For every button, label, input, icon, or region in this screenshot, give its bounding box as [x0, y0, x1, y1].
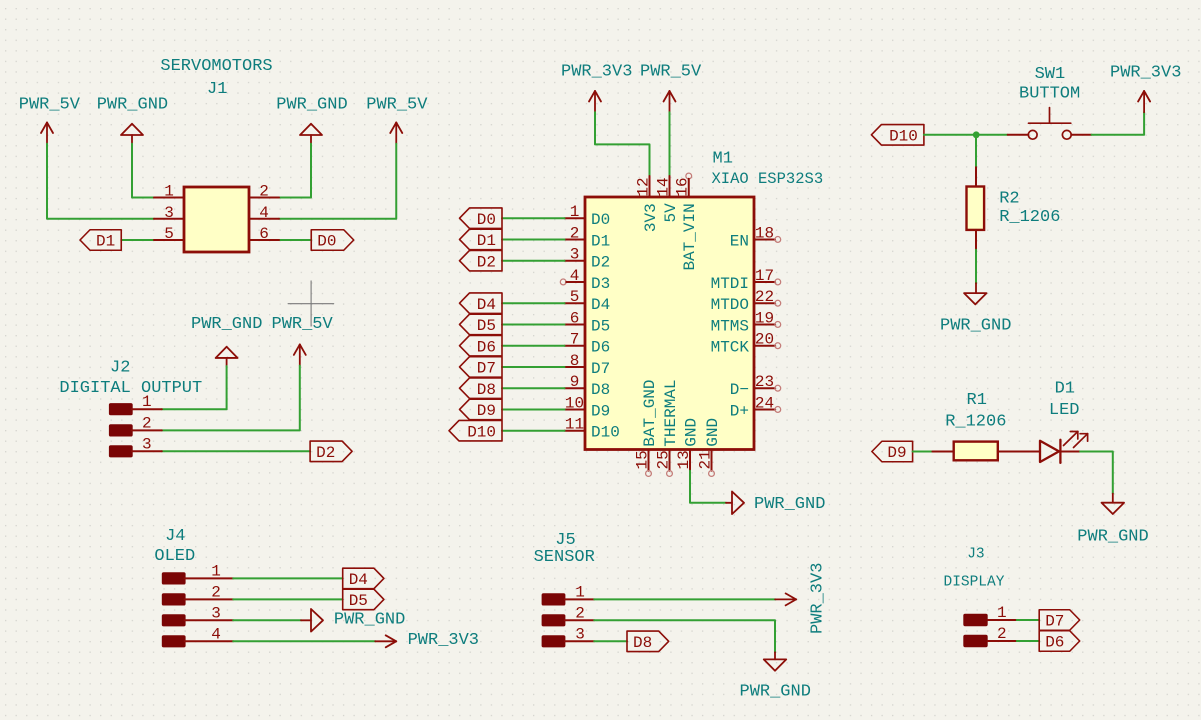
- svg-text:6: 6: [570, 309, 580, 327]
- svg-text:D6: D6: [477, 338, 496, 356]
- svg-text:SERVOMOTORS: SERVOMOTORS: [160, 57, 272, 76]
- svg-text:D9: D9: [477, 402, 496, 420]
- svg-text:BAT_GND: BAT_GND: [641, 379, 659, 446]
- svg-text:2: 2: [575, 604, 585, 622]
- svg-text:SENSOR: SENSOR: [534, 548, 595, 567]
- svg-text:11: 11: [565, 416, 584, 434]
- svg-text:1: 1: [142, 393, 152, 411]
- svg-text:PWR_5V: PWR_5V: [272, 315, 334, 334]
- svg-text:PWR_GND: PWR_GND: [740, 683, 811, 702]
- svg-text:D1: D1: [96, 233, 115, 251]
- svg-text:D−: D−: [730, 381, 749, 399]
- svg-text:D8: D8: [477, 381, 496, 399]
- svg-text:M1: M1: [713, 149, 733, 168]
- svg-text:XIAO ESP32S3: XIAO ESP32S3: [712, 170, 824, 188]
- svg-text:D2: D2: [316, 444, 335, 462]
- svg-text:5: 5: [570, 288, 580, 306]
- svg-text:GND: GND: [682, 418, 700, 447]
- svg-text:J3: J3: [967, 547, 984, 563]
- svg-text:D0: D0: [477, 211, 496, 229]
- svg-text:25: 25: [655, 450, 673, 469]
- svg-text:R_1206: R_1206: [999, 208, 1060, 227]
- svg-text:D1: D1: [591, 232, 610, 250]
- svg-text:D6: D6: [1045, 634, 1064, 652]
- svg-text:9: 9: [570, 373, 580, 391]
- svg-text:PWR_GND: PWR_GND: [191, 315, 262, 334]
- svg-text:3: 3: [142, 435, 152, 453]
- svg-text:21: 21: [697, 450, 715, 469]
- svg-text:D1: D1: [1055, 380, 1075, 399]
- svg-text:3: 3: [211, 604, 221, 622]
- svg-text:D2: D2: [591, 254, 610, 272]
- svg-text:4: 4: [211, 625, 221, 643]
- svg-text:5V: 5V: [662, 203, 680, 223]
- svg-text:D5: D5: [477, 317, 496, 335]
- svg-text:4: 4: [570, 267, 580, 285]
- svg-text:D8: D8: [633, 634, 652, 652]
- svg-text:DISPLAY: DISPLAY: [944, 575, 1005, 591]
- svg-text:LED: LED: [1049, 401, 1080, 420]
- svg-text:14: 14: [654, 177, 672, 196]
- svg-text:3: 3: [570, 246, 580, 264]
- svg-text:4: 4: [259, 204, 269, 222]
- svg-text:PWR_GND: PWR_GND: [754, 495, 825, 514]
- svg-text:D1: D1: [477, 232, 496, 250]
- svg-text:D+: D+: [730, 402, 749, 420]
- svg-text:18: 18: [755, 224, 774, 242]
- svg-text:D4: D4: [349, 571, 368, 589]
- svg-text:10: 10: [565, 394, 584, 412]
- svg-text:PWR_3V3: PWR_3V3: [1110, 63, 1181, 82]
- svg-text:D6: D6: [591, 339, 610, 357]
- svg-text:D5: D5: [591, 317, 610, 335]
- svg-text:D7: D7: [477, 360, 496, 378]
- svg-text:D9: D9: [591, 402, 610, 420]
- svg-text:SW1: SW1: [1035, 65, 1066, 84]
- svg-text:D4: D4: [591, 296, 610, 314]
- svg-text:PWR_GND: PWR_GND: [940, 317, 1011, 336]
- svg-text:BUTTOM: BUTTOM: [1019, 85, 1080, 104]
- svg-text:17: 17: [755, 267, 774, 285]
- svg-text:15: 15: [634, 450, 652, 469]
- svg-text:PWR_3V3: PWR_3V3: [809, 563, 828, 634]
- svg-text:7: 7: [570, 331, 580, 349]
- svg-text:2: 2: [997, 625, 1007, 643]
- svg-text:3: 3: [164, 204, 174, 222]
- svg-text:1: 1: [575, 583, 585, 601]
- svg-text:1: 1: [570, 203, 580, 221]
- svg-text:2: 2: [142, 414, 152, 432]
- svg-text:D9: D9: [887, 444, 906, 462]
- svg-text:2: 2: [570, 224, 580, 242]
- svg-text:R_1206: R_1206: [945, 412, 1006, 431]
- svg-text:PWR_3V3: PWR_3V3: [408, 631, 479, 650]
- svg-text:PWR_3V3: PWR_3V3: [561, 63, 632, 82]
- svg-text:6: 6: [259, 225, 269, 243]
- svg-text:23: 23: [755, 373, 774, 391]
- svg-text:PWR_GND: PWR_GND: [1077, 528, 1148, 547]
- svg-text:PWR_5V: PWR_5V: [640, 63, 702, 82]
- svg-text:3: 3: [575, 625, 585, 643]
- svg-text:2: 2: [211, 583, 221, 601]
- svg-text:J4: J4: [165, 527, 185, 546]
- svg-text:PWR_5V: PWR_5V: [366, 95, 428, 114]
- svg-text:12: 12: [634, 177, 652, 196]
- svg-text:D0: D0: [317, 233, 336, 251]
- svg-text:D10: D10: [591, 424, 620, 442]
- svg-text:EN: EN: [730, 232, 749, 250]
- svg-text:OLED: OLED: [154, 547, 195, 566]
- svg-text:D7: D7: [591, 360, 610, 378]
- svg-text:GND: GND: [704, 418, 722, 447]
- svg-text:19: 19: [755, 309, 774, 327]
- svg-text:D3: D3: [591, 275, 610, 293]
- svg-text:1: 1: [997, 604, 1007, 622]
- svg-text:MTDO: MTDO: [711, 296, 749, 314]
- svg-text:D7: D7: [1045, 613, 1064, 631]
- svg-text:MTDI: MTDI: [711, 275, 749, 293]
- svg-text:J2: J2: [110, 359, 130, 378]
- svg-text:D10: D10: [467, 423, 496, 441]
- svg-text:5: 5: [164, 225, 174, 243]
- svg-text:PWR_GND: PWR_GND: [334, 610, 405, 629]
- svg-text:PWR_GND: PWR_GND: [97, 95, 168, 114]
- svg-text:D2: D2: [477, 253, 496, 271]
- svg-text:PWR_5V: PWR_5V: [19, 95, 81, 114]
- svg-text:MTCK: MTCK: [711, 339, 750, 357]
- svg-text:THERMAL: THERMAL: [662, 379, 680, 446]
- svg-text:13: 13: [675, 450, 693, 469]
- svg-text:R2: R2: [999, 190, 1019, 209]
- svg-text:24: 24: [755, 394, 774, 412]
- svg-text:D8: D8: [591, 381, 610, 399]
- svg-text:D0: D0: [591, 211, 610, 229]
- svg-text:1: 1: [211, 562, 221, 580]
- svg-text:16: 16: [674, 177, 692, 196]
- svg-text:D10: D10: [889, 127, 918, 145]
- svg-text:BAT_VIN: BAT_VIN: [681, 203, 699, 270]
- svg-text:J1: J1: [207, 80, 227, 99]
- svg-text:PWR_GND: PWR_GND: [276, 95, 347, 114]
- svg-text:2: 2: [259, 183, 269, 201]
- svg-text:3V3: 3V3: [642, 203, 660, 232]
- svg-text:22: 22: [755, 288, 774, 306]
- svg-text:D4: D4: [477, 296, 496, 314]
- svg-text:R1: R1: [967, 391, 987, 410]
- svg-text:20: 20: [755, 331, 774, 349]
- svg-text:DIGITAL OUTPUT: DIGITAL OUTPUT: [59, 379, 202, 398]
- svg-text:D5: D5: [349, 592, 368, 610]
- svg-text:8: 8: [570, 352, 580, 370]
- svg-text:1: 1: [164, 183, 174, 201]
- svg-text:MTMS: MTMS: [711, 317, 749, 335]
